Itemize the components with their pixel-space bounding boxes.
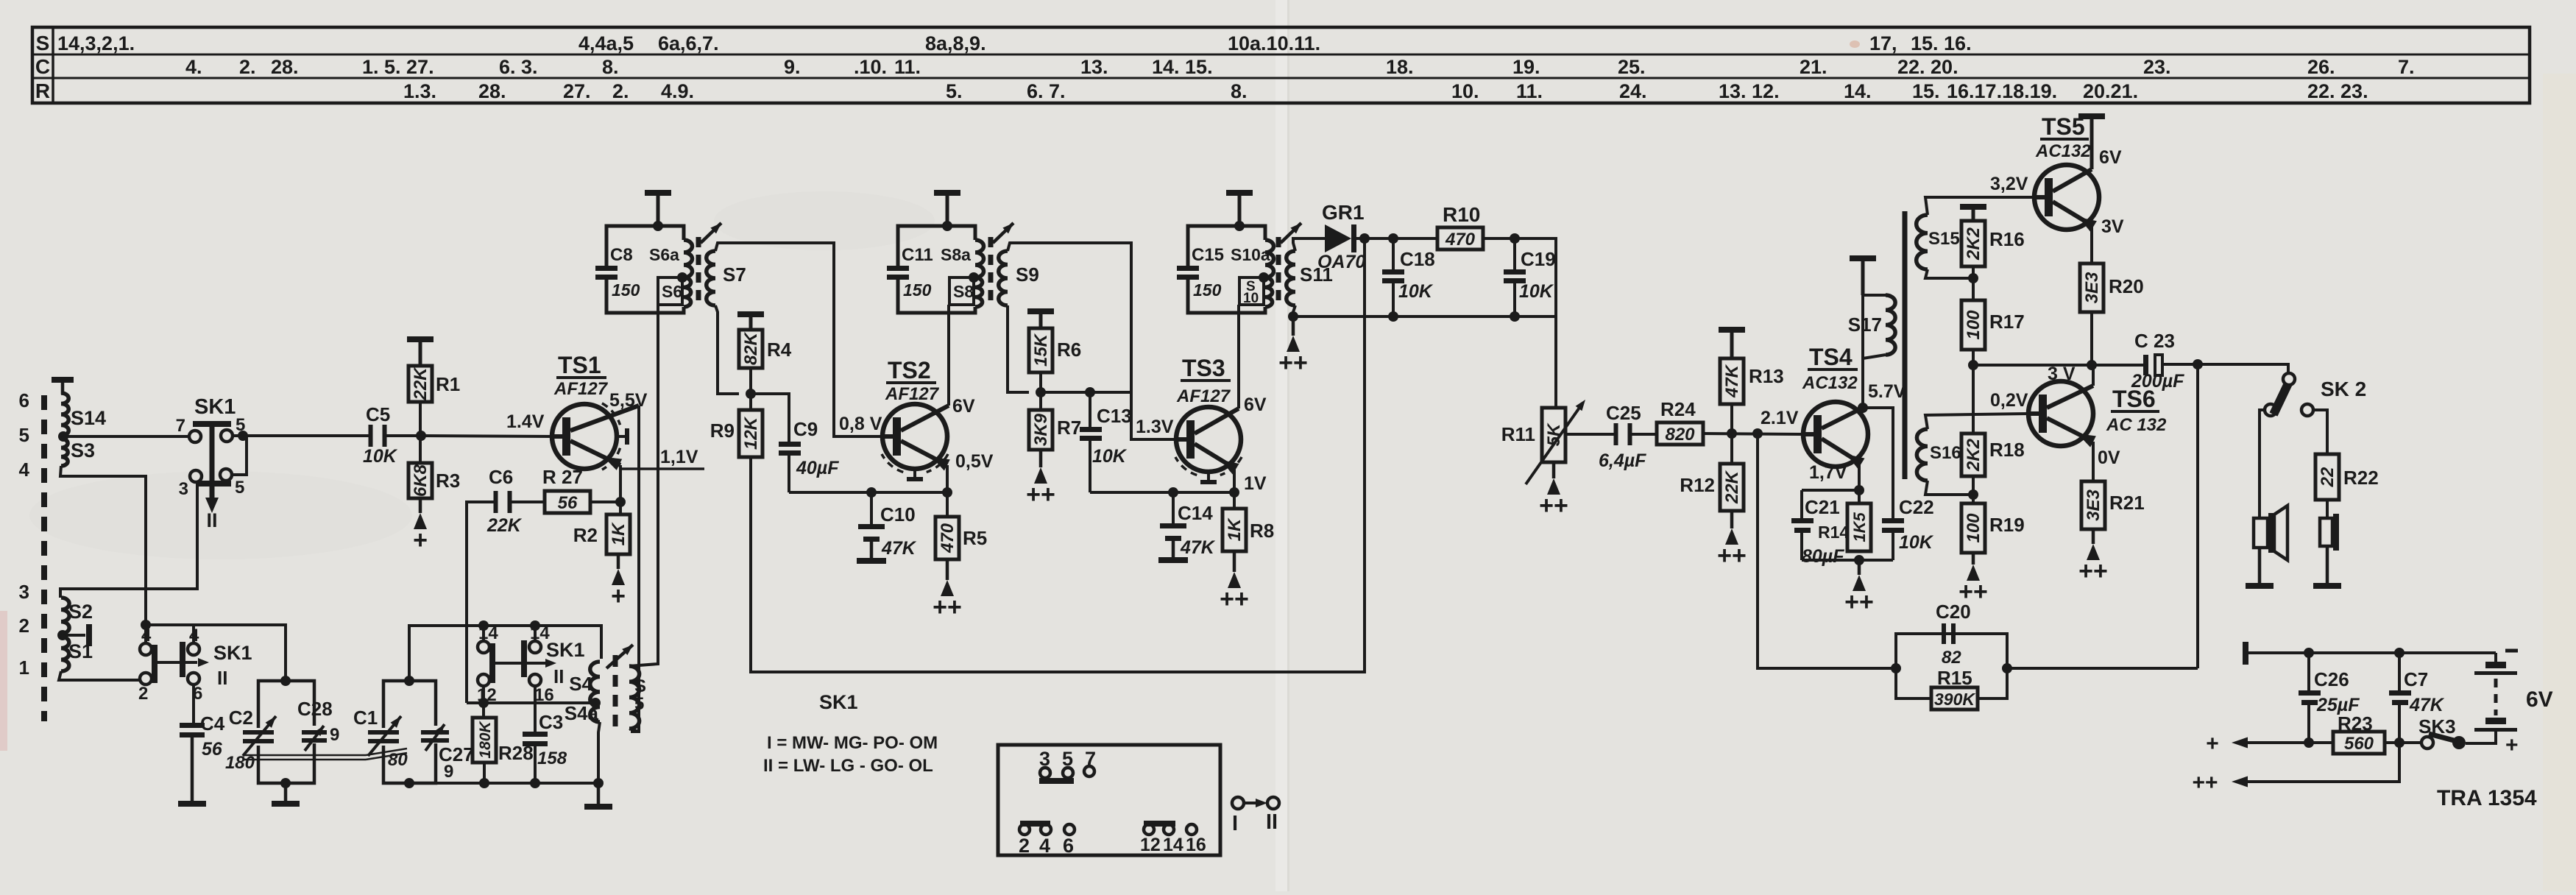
node C19 top [1510, 233, 1520, 244]
svg-text:1.3V: 1.3V [1136, 417, 1174, 437]
voltage label 1,1V at TS1 emitter [620, 467, 704, 470]
node C19 bottom [1510, 311, 1520, 322]
svg-text:6V: 6V [1244, 395, 1267, 415]
svg-text:R1: R1 [436, 373, 460, 395]
svg-text:AC 132: AC 132 [2106, 415, 2167, 435]
wire contact 12 through to R28 [482, 686, 485, 718]
node box top [280, 676, 291, 686]
svg-text:2: 2 [19, 615, 29, 637]
svg-text:10K: 10K [1092, 446, 1128, 467]
svg-text:22K: 22K [1722, 470, 1742, 504]
coil S14 [61, 393, 68, 436]
svg-text:.10.: .10. [854, 56, 887, 78]
svg-text:C2: C2 [229, 707, 253, 729]
svg-text:++: ++ [933, 593, 962, 621]
svg-text:10: 10 [1243, 291, 1259, 306]
coil S2 [61, 598, 69, 634]
svg-text:C20: C20 [1936, 601, 1971, 623]
capacitor C5 [369, 425, 373, 447]
svg-text:150: 150 [903, 280, 932, 300]
svg-text:28.: 28. [478, 80, 506, 102]
wire SK2 to speaker [2260, 410, 2265, 517]
IFT3 tuning arrow [1281, 223, 1301, 243]
driver transformer core [1903, 211, 1908, 479]
svg-text:0,8 V: 0,8 V [839, 414, 882, 434]
trimmer capacitor C27 9 [421, 730, 449, 735]
node box B top [404, 676, 414, 686]
svg-text:100: 100 [1964, 513, 1984, 543]
node S14/S3 tap [58, 431, 68, 442]
resistor R4 82K [749, 314, 753, 330]
svg-text:R7: R7 [1057, 417, 1081, 439]
svg-text:GR1: GR1 [1322, 201, 1365, 224]
svg-text:R5: R5 [963, 527, 987, 549]
svg-text:9: 9 [444, 762, 453, 782]
wire R10 to C19 and volume control [1483, 238, 1556, 408]
resistor R22 22 [2315, 454, 2339, 500]
svg-text:TS2: TS2 [888, 357, 931, 383]
svg-text:10a.10.11.: 10a.10.11. [1228, 32, 1320, 54]
svg-text:R3: R3 [436, 470, 460, 492]
svg-text:TS4: TS4 [1809, 344, 1853, 370]
svg-text:12: 12 [1140, 835, 1161, 855]
svg-text:S: S [36, 32, 50, 54]
svg-text:8a,8,9.: 8a,8,9. [925, 32, 986, 54]
resistor R24 820 [1657, 422, 1703, 445]
ground below C4 [191, 737, 194, 801]
wire S5 top to S6 tap line [629, 305, 658, 666]
oscillator switch net wire [467, 701, 595, 704]
node R6/R7/C13/S9 [1036, 387, 1046, 397]
resistor R18 2K2 [1972, 365, 1975, 434]
coil S5 [629, 666, 640, 729]
node AGC tap [1359, 233, 1370, 244]
terminal ++ below S11 [1292, 316, 1295, 336]
svg-text:7: 7 [176, 416, 185, 436]
wire TS2 collector to IFT2 tap [947, 305, 950, 406]
svg-text:+: + [2505, 733, 2519, 757]
node S4a tap [590, 698, 601, 708]
svg-text:10K: 10K [1398, 281, 1434, 302]
svg-text:1K5: 1K5 [1850, 512, 1869, 542]
wire SK3 to battery plus [2466, 742, 2496, 745]
svg-text:82: 82 [1942, 648, 1961, 668]
coil S9 [999, 251, 1008, 305]
terminal ++ below R11 [1552, 462, 1556, 478]
stub contact 14 left to wire [482, 626, 485, 641]
svg-text:2: 2 [1019, 835, 1030, 857]
svg-text:1.4V: 1.4V [506, 411, 545, 432]
node C7 top [2394, 648, 2405, 658]
svg-text:AF127: AF127 [885, 384, 940, 404]
svg-text:R16: R16 [1989, 228, 2025, 250]
wire TS1 emitter to R2/R27 node [619, 465, 622, 502]
ground below speaker [2258, 548, 2262, 583]
svg-text:21.: 21. [1800, 56, 1827, 78]
svg-text:158: 158 [537, 749, 567, 768]
svg-text:470: 470 [1445, 230, 1476, 250]
wire S11 bottom to detector return [1293, 305, 1295, 316]
svg-text:R19: R19 [1989, 514, 2025, 536]
terminal bar above IFT3 [1238, 193, 1242, 226]
svg-text:C15: C15 [1192, 245, 1224, 265]
svg-text:26.: 26. [2307, 56, 2335, 78]
speaker [2254, 518, 2268, 548]
wire TS3 emitter node [1233, 468, 1236, 492]
svg-text:25.: 25. [1618, 56, 1646, 78]
svg-text:16.17.18.19.: 16.17.18.19. [1947, 80, 2057, 102]
switch SK1 section 2 arrow [158, 661, 197, 664]
resistor R3 6K8 [419, 436, 422, 463]
svg-text:C1: C1 [353, 707, 378, 729]
IF transformer 2 box C11 150 S8a S8 [898, 226, 975, 266]
component location index table frame [32, 27, 2530, 103]
switch SK1 contact 3 [190, 470, 202, 482]
terminal ++ below R21 [2092, 529, 2095, 544]
capacitor C25 6,4uF [1614, 423, 1618, 445]
capacitor C21 80uF [1800, 490, 1803, 518]
svg-text:R: R [35, 79, 50, 102]
svg-text:4: 4 [1039, 835, 1050, 857]
svg-text:5: 5 [634, 694, 644, 714]
svg-text:40µF: 40µF [796, 458, 839, 478]
svg-text:14: 14 [1163, 835, 1183, 855]
switch SK1 section 3 arrow [495, 662, 545, 665]
capacitor C18 10K [1392, 238, 1395, 269]
wire AGC feedback R9 bottom to detector [751, 238, 1365, 672]
wire S7 bottom to R4/R9 node [715, 305, 739, 394]
wire S2 top to SK1 contact 3 [60, 482, 197, 598]
coil S1 [61, 637, 69, 671]
tuning gang section box C2/C28 [258, 681, 314, 728]
svg-text:C14: C14 [1178, 502, 1213, 524]
wire C5 to R1/R3 node [383, 434, 421, 437]
tuning gang section box C1/C27 [383, 681, 436, 728]
svg-text:10.: 10. [1451, 80, 1479, 102]
wire S4 bottom to ground node [598, 722, 600, 783]
svg-text:17,: 17, [1869, 32, 1897, 54]
switch SK1 section 3 contact 16 [529, 674, 541, 686]
svg-text:C 23: C 23 [2134, 330, 2175, 352]
node output to feedback [2193, 359, 2203, 369]
svg-text:6,4µF: 6,4µF [1599, 450, 1646, 471]
node R16/R17/S15 [1968, 273, 1978, 283]
svg-text:S6a: S6a [649, 245, 679, 264]
ground below tuning box A [284, 783, 288, 801]
svg-text:47K: 47K [1180, 537, 1216, 558]
svg-text:11.: 11. [1516, 80, 1543, 102]
svg-text:II: II [1266, 810, 1278, 834]
output mid node wire [1973, 364, 2143, 367]
svg-text:R8: R8 [1250, 520, 1274, 542]
switch SK1 section 1 actuator [193, 421, 231, 427]
svg-text:27.: 27. [563, 80, 591, 102]
svg-text:C21: C21 [1805, 496, 1840, 518]
svg-text:19.: 19. [1512, 56, 1540, 78]
svg-text:C11: C11 [902, 245, 933, 265]
svg-text:1K: 1K [609, 522, 629, 545]
svg-text:82K: 82K [741, 331, 761, 365]
wire S15 top to TS5 base [1925, 197, 2034, 215]
stub contact 14 right to wire [534, 626, 537, 641]
capacitor C9 40uF [751, 394, 789, 442]
node feedback/base [1752, 428, 1763, 439]
wire TS4 collector to C22 [1863, 408, 1893, 518]
svg-text:C: C [35, 55, 50, 78]
trimmer capacitor C28 9 [302, 730, 327, 735]
IFT3 core (dashed) [1276, 237, 1281, 308]
feedback wire to TS4 base [1758, 434, 1896, 668]
svg-text:9.: 9. [784, 56, 801, 78]
variable capacitor C1 80 [368, 730, 399, 735]
svg-text:TS6: TS6 [2112, 386, 2156, 412]
svg-text:3: 3 [19, 581, 29, 603]
svg-text:SK1: SK1 [819, 691, 858, 713]
svg-text:24.: 24. [1619, 80, 1647, 102]
variable capacitor C2 180 [243, 730, 274, 735]
plus rail arrow [2246, 741, 2333, 744]
ground below oscillator section [597, 783, 601, 804]
switch SK1 section 3 actuator bars [489, 643, 495, 683]
resistor R6 15K [1039, 311, 1043, 328]
svg-text:16: 16 [1186, 835, 1206, 855]
transistor TS1 AF127 [552, 404, 617, 469]
svg-text:4.: 4. [185, 56, 202, 78]
terminal bar above IFT1 [657, 193, 660, 226]
svg-text:SK 2: SK 2 [2321, 378, 2366, 400]
svg-text:S1: S1 [68, 640, 93, 662]
node TS4 collector [1858, 403, 1868, 413]
switch SK1 section 3 contact 12 [478, 674, 489, 686]
node S4 bottom corner [593, 778, 604, 788]
svg-text:R21: R21 [2109, 492, 2145, 514]
capacitor C10 47K [866, 487, 877, 498]
resistor R27 56 [545, 491, 590, 513]
node C26 bottom [2304, 737, 2314, 748]
wire terminal to battery [2246, 651, 2496, 654]
svg-text:+: + [2206, 732, 2219, 756]
switch SK1 contact 5 upper [221, 430, 233, 442]
svg-text:390K: 390K [1934, 690, 1975, 709]
svg-text:56: 56 [202, 739, 223, 760]
svg-text:++: ++ [1844, 588, 1874, 616]
node box bottom [280, 778, 291, 788]
node R1/R3/C5 [416, 431, 426, 441]
switch SK2 moving contact [2283, 373, 2295, 385]
wire S16 bottom to R18/R19 node [1925, 481, 1973, 495]
switch SK2 blade [2274, 383, 2288, 414]
wire S15 bottom to R16/R17 node [1925, 269, 1973, 278]
svg-text:R24: R24 [1660, 398, 1696, 420]
svg-text:S6: S6 [662, 282, 682, 301]
wire S1 bottom to SK1 contact 2 [59, 671, 140, 680]
svg-text:5.7V: 5.7V [1868, 381, 1906, 402]
wire contacts-4 node to tuning box C2/C28 [194, 625, 286, 681]
switch SK2 fixed contact left [2265, 404, 2276, 416]
switch SK1 section 3 contact 14 left [478, 641, 489, 653]
switch SK2 fixed contact right [2301, 404, 2313, 416]
svg-text:180K: 180K [477, 721, 494, 759]
svg-text:II: II [217, 667, 227, 689]
node R28 bottom [479, 778, 489, 788]
ground below earphone jack [2326, 546, 2329, 583]
svg-text:11.: 11. [894, 56, 921, 78]
terminal ++ below R5 [946, 559, 949, 580]
svg-text:S8: S8 [953, 282, 974, 301]
svg-text:S4a: S4a [565, 702, 599, 724]
svg-text:14. 15.: 14. 15. [1152, 56, 1213, 78]
wire R11 wiper to C25 [1566, 433, 1615, 436]
svg-text:R14: R14 [1818, 523, 1849, 542]
svg-text:R20: R20 [2109, 275, 2144, 297]
svg-text:I = MW- MG- PO- OM: I = MW- MG- PO- OM [767, 733, 938, 753]
svg-text:II: II [553, 665, 564, 687]
svg-text:AC132: AC132 [2035, 141, 2091, 161]
svg-text:12K: 12K [741, 416, 761, 450]
svg-text:R9: R9 [710, 420, 735, 442]
svg-text:C28: C28 [297, 698, 333, 720]
resistor R15 390K [1896, 668, 1931, 698]
IFT1 core (dashed) [696, 237, 701, 308]
terminal ++ below R7 [1039, 450, 1043, 467]
svg-text:C18: C18 [1400, 248, 1435, 270]
svg-text:R10: R10 [1443, 203, 1480, 226]
svg-text:5: 5 [235, 478, 244, 498]
svg-text:5: 5 [19, 424, 29, 446]
resistor R19 100 [1972, 495, 1975, 503]
IFT2 core (dashed) [988, 237, 994, 308]
wire contact 6 to C4 [192, 684, 195, 723]
svg-text:S8a: S8a [941, 245, 971, 264]
node emitter/R27/R2 [615, 497, 626, 507]
node C3 bottom [530, 778, 540, 788]
svg-text:R17: R17 [1989, 311, 2025, 333]
svg-text:6: 6 [1063, 835, 1074, 857]
svg-text:8.: 8. [1231, 80, 1248, 102]
wire S9 top to TS3 base [1008, 243, 1176, 439]
svg-text:C7: C7 [2404, 668, 2428, 690]
terminal bar above IFT2 [946, 193, 949, 226]
svg-text:C10: C10 [880, 503, 916, 526]
feedback wire from output node [2196, 364, 2199, 668]
wire antenna tap to SK1 contact 7 [63, 435, 189, 438]
battery feed terminal [2243, 642, 2248, 665]
IF transformer 3 box C15 150 S10a S10 [1188, 226, 1265, 266]
svg-text:R18: R18 [1989, 439, 2025, 461]
svg-text:R13: R13 [1749, 365, 1784, 387]
svg-text:R11: R11 [1501, 423, 1535, 445]
wire node to TS1 base [421, 436, 552, 436]
svg-text:R12: R12 [1680, 474, 1715, 496]
switch SK1 section 3 contact 14 right [529, 641, 541, 653]
earphone jack below R22 [2326, 500, 2329, 518]
resistor R7 3K9 [1039, 392, 1042, 410]
resistor R12 22K [1730, 434, 1733, 464]
svg-text:++: ++ [1717, 542, 1747, 570]
svg-text:II = LW- LG - GO- OL: II = LW- LG - GO- OL [763, 756, 933, 776]
svg-text:1K: 1K [1225, 517, 1245, 541]
svg-text:7.: 7. [2398, 56, 2415, 78]
svg-text:6V: 6V [2099, 147, 2122, 168]
transistor TS3 AF127 [1176, 407, 1241, 472]
wire C6 left lead down to oscillator switch net [467, 502, 498, 703]
svg-text:5.: 5. [946, 80, 963, 102]
svg-text:22K: 22K [486, 515, 523, 536]
node C18 bottom [1388, 311, 1398, 322]
svg-text:100: 100 [1964, 310, 1984, 340]
svg-text:470: 470 [938, 523, 958, 553]
terminal ++ below emitter network [1858, 560, 1861, 575]
terminal ++ below R12 [1730, 511, 1734, 528]
wire S11 top to detector GR1 [1293, 238, 1325, 251]
svg-text:47K: 47K [2409, 695, 2445, 715]
svg-text:OA70: OA70 [1317, 252, 1365, 272]
svg-text:2K2: 2K2 [1964, 227, 1984, 261]
svg-text:22. 23.: 22. 23. [2307, 80, 2368, 102]
node C18 top [1388, 233, 1398, 244]
svg-text:C26: C26 [2314, 668, 2349, 690]
wire S17 bottom join [1863, 355, 1886, 408]
wire S9 bottom to R6/R7 node [1008, 305, 1029, 392]
svg-text:47K: 47K [881, 538, 917, 559]
capacitor C26 25uF [2307, 653, 2310, 690]
resistor R10 470 [1437, 227, 1483, 250]
svg-text:20.21.: 20.21. [2083, 80, 2138, 102]
capacitor C22 10K [1882, 518, 1904, 523]
svg-text:15K: 15K [1031, 333, 1051, 367]
wire TS3 collector to IFT3 tap [1237, 305, 1240, 408]
transistor TS2 AF127 [882, 404, 947, 469]
wire S7 top to TS2 base [715, 243, 882, 436]
svg-text:S7: S7 [723, 263, 746, 286]
antenna terminal [52, 377, 74, 383]
resistor R14 1K5 [1858, 490, 1861, 503]
svg-text:10K: 10K [1519, 281, 1554, 302]
svg-text:SK1: SK1 [546, 639, 585, 661]
svg-text:1,1V: 1,1V [660, 447, 698, 467]
svg-text:S9: S9 [1016, 263, 1039, 286]
IF transformer 1 box C8 150 S6a S6 [606, 226, 684, 266]
svg-text:S17: S17 [1848, 314, 1882, 336]
tuning gang link line [243, 754, 366, 757]
wire S5 bottom joining TS1 collector line [629, 729, 639, 732]
svg-text:S3: S3 [71, 439, 95, 461]
svg-text:C6: C6 [489, 466, 513, 488]
svg-text:C25: C25 [1606, 402, 1641, 424]
svg-text:3V: 3V [2101, 216, 2124, 237]
SK1 contact layout box [998, 745, 1220, 855]
capacitor C7 47K [2398, 653, 2401, 690]
node C7 bottom [2394, 737, 2405, 748]
capacitor C13 10K [1041, 391, 1131, 394]
coil S11 [1287, 251, 1295, 305]
terminal ++ below R8 [1233, 551, 1236, 572]
svg-text:C13: C13 [1097, 405, 1132, 427]
svg-text:18.: 18. [1386, 56, 1414, 78]
resistor R28 180K [473, 718, 496, 763]
IFT2 tuning arrow [993, 223, 1013, 243]
svg-text:TS5: TS5 [2042, 113, 2085, 140]
switch SK1 contact 5 lower [220, 469, 232, 481]
svg-text:10K: 10K [363, 446, 398, 467]
wire C23 to SK2 [2162, 364, 2288, 373]
resistor R23 560 [2333, 732, 2385, 754]
svg-text:R22: R22 [2343, 467, 2379, 489]
wire S3 net to contacts 4 [141, 620, 151, 630]
svg-text:TRA 1354: TRA 1354 [2437, 786, 2537, 810]
resistor R17 100 [1972, 278, 1975, 300]
oscillator coil core (dashed) [613, 655, 618, 732]
